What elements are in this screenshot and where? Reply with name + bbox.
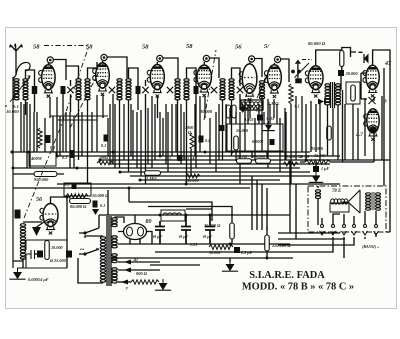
wire V4 plate — [204, 58, 219, 78]
speaker box 78E — [308, 186, 386, 232]
label 400W — [30, 156, 43, 161]
svg-text:0.00054 μF: 0.00054 μF — [28, 277, 49, 282]
IF coil T2a — [117, 79, 122, 100]
wire terminal drops — [155, 233, 376, 258]
wire phones — [342, 48, 363, 58]
label 10.000 b — [284, 154, 295, 159]
label 8uF a — [153, 234, 163, 239]
resistor R plate 80k — [340, 51, 344, 67]
svg-text:250.000: 250.000 — [184, 178, 200, 183]
diode arrow V7 — [318, 99, 325, 105]
svg-text:0.1: 0.1 — [205, 138, 210, 143]
arrow up osc — [295, 60, 301, 79]
svg-text:S.I.A.R.E. FADA: S.I.A.R.E. FADA — [249, 270, 325, 281]
svg-text:0.1: 0.1 — [101, 143, 106, 148]
label a left — [5, 103, 7, 108]
heater resistor 800 — [131, 280, 159, 284]
title line 2 — [242, 282, 354, 293]
AF transformer secondary — [336, 84, 341, 105]
trimmer X3 — [142, 87, 148, 93]
resistor R 250k — [186, 174, 200, 178]
IF coil T2b — [126, 79, 131, 100]
wire right edge vertical 1 — [383, 68, 385, 186]
wire speaker leads — [322, 211, 376, 225]
power transformer secondary — [112, 218, 117, 283]
svg-text:a: a — [5, 103, 7, 108]
antenna coupling hook — [16, 62, 30, 75]
tube V9 47 — [364, 109, 379, 141]
IF coil T1b — [85, 79, 90, 100]
wire T2 tops — [129, 68, 146, 112]
junction dots — [11, 151, 308, 260]
antenna — [9, 44, 23, 76]
tube V7 2A5 — [305, 66, 323, 98]
svg-text:1 μF: 1 μF — [321, 166, 329, 171]
label 0.1 C8 — [100, 203, 105, 208]
svg-text:58: 58 — [142, 44, 149, 51]
oscillator coil L2 — [257, 76, 267, 99]
resistor R osc a — [226, 105, 230, 118]
capacitor C6 0.1 — [104, 135, 109, 142]
label 80.000 n2 — [70, 204, 87, 209]
title line 1 — [249, 270, 325, 281]
resistor R 1800 — [190, 133, 194, 150]
wire heater 3 — [118, 280, 131, 285]
bottom left box — [17, 240, 67, 268]
capacitor C1 — [61, 86, 66, 94]
wire antenna coil tops — [26, 70, 35, 115]
label 0.03 — [267, 116, 275, 121]
resistor R 250k v — [265, 227, 270, 258]
ground bottom left — [9, 268, 25, 279]
svg-text:MODD. « 78 B » « 78 C »: MODD. « 78 B » « 78 C » — [242, 282, 354, 293]
filter cap C14 — [181, 215, 191, 244]
label 500 — [99, 155, 109, 160]
resistor R 1M pill — [145, 171, 161, 176]
gang dash right — [302, 59, 312, 61]
label 950.000 — [34, 177, 49, 182]
tube V6 top cap — [275, 56, 281, 62]
svg-text:(BASSI) «: (BASSI) « — [362, 244, 379, 249]
wire bus h6 — [120, 171, 310, 173]
label 0.1 left — [13, 104, 19, 109]
svg-text:400W: 400W — [30, 156, 43, 161]
tube V1 top cap — [47, 57, 53, 63]
svg-text:950.000: 950.000 — [34, 177, 49, 182]
mains switch — [79, 228, 99, 256]
label bassi — [362, 244, 379, 249]
svg-text:Θ μF: Θ μF — [153, 234, 163, 239]
capacitor C 30000 — [338, 70, 344, 76]
gang dashed line 2 — [204, 50, 216, 120]
wire right edge vertical 2 — [386, 100, 390, 232]
svg-text:30.000: 30.000 — [199, 109, 213, 114]
ground heater — [155, 279, 171, 290]
label 0.1 C5 — [62, 155, 67, 160]
label 30.000 det — [199, 109, 213, 114]
label 78E — [332, 189, 341, 194]
wire 950k leads — [13, 173, 64, 175]
arrow below padder — [239, 104, 247, 113]
trimmer X4 — [167, 87, 173, 93]
IF coil T4b — [229, 79, 234, 100]
gang dash top — [44, 45, 89, 47]
wire V10 top — [51, 197, 68, 268]
IF coil T3b — [184, 79, 189, 100]
wire det drops — [252, 176, 267, 230]
label 80 V11 — [146, 219, 152, 225]
arrow down C8 — [92, 209, 99, 215]
output transformer — [366, 192, 381, 210]
resistor R 10k — [66, 194, 88, 198]
svg-text:80.000 Ω: 80.000 Ω — [70, 204, 87, 209]
capacitor C4 0.1 — [46, 135, 51, 143]
capacitor C 51 grid — [295, 78, 302, 83]
wire V8 plate — [373, 50, 390, 100]
label 51 V6 — [264, 43, 270, 50]
label 95.000 — [311, 146, 324, 151]
label 50.000 det — [236, 128, 249, 133]
label 25.000 bl — [50, 258, 67, 263]
label 250.000 mid — [184, 178, 200, 183]
wire V3 plate — [157, 58, 178, 78]
power transformer primary — [100, 237, 105, 283]
wire left main vertical — [13, 75, 16, 268]
resistor R 25k v — [230, 223, 235, 239]
wire bus h4 — [110, 163, 330, 165]
label 1.25 — [190, 242, 197, 247]
label 58 V4 — [186, 43, 193, 50]
tube V2 58 — [93, 63, 110, 96]
svg-text:4.7: 4.7 — [355, 132, 363, 138]
resistor R 150k — [237, 159, 252, 164]
tube V6 51 — [264, 65, 281, 98]
junction dot 51 — [291, 70, 301, 74]
wire T4 tops — [232, 68, 241, 110]
svg-text:150.1Ω: 150.1Ω — [235, 154, 247, 159]
svg-text:35.000: 35.000 — [313, 153, 326, 158]
IF coil T1a — [76, 79, 81, 100]
speaker cone — [342, 190, 360, 213]
svg-text:/50: /50 — [296, 154, 302, 159]
label 58 V3 — [142, 44, 149, 51]
capacitor C5 0.1 — [70, 150, 75, 158]
wire bus h3 — [100, 159, 390, 161]
wire bus h1 — [13, 151, 310, 153]
capacitor C7 0.1 — [72, 183, 77, 189]
wire V1 plate — [48, 60, 66, 81]
label 35.000 — [313, 153, 326, 158]
slash osc — [295, 63, 310, 78]
label 870.000 — [252, 154, 265, 159]
trimmer X5 — [211, 87, 217, 93]
resistor R 10k b — [283, 162, 298, 166]
capacitor C11 — [37, 251, 43, 258]
oscillator padder box — [241, 100, 263, 110]
label 4.7 V9 — [355, 132, 363, 138]
tube V1 58 — [39, 65, 55, 98]
svg-text:0.1: 0.1 — [64, 182, 69, 187]
gang dashed line 3 — [70, 60, 105, 128]
label 0.1 extra — [205, 138, 210, 143]
svg-text:500Ω: 500Ω — [99, 155, 109, 160]
gang dashed line 1 — [24, 46, 89, 218]
filter cap C15 — [205, 215, 215, 244]
tube V4 58 — [194, 65, 211, 97]
svg-text:0.1: 0.1 — [295, 104, 300, 109]
wire 47 grid bracket — [361, 73, 367, 99]
svg-text:870.000: 870.000 — [252, 154, 265, 159]
wire vertical drops grid — [21, 94, 382, 184]
tube V5 56 — [239, 64, 257, 101]
box 400W — [29, 152, 56, 166]
label 0.0001 det — [252, 139, 264, 144]
capacitor det — [270, 139, 275, 145]
field coil — [330, 199, 349, 212]
wire B+ line — [99, 214, 290, 216]
label 0.00054 — [28, 277, 49, 282]
label 30.000 top — [345, 71, 359, 76]
label 58 V1 — [33, 44, 40, 51]
trimmer X6 — [237, 87, 243, 93]
label 0.5 — [256, 108, 262, 113]
label 1MΩ — [146, 176, 158, 181]
capacitor C16 — [234, 247, 240, 253]
label /50 — [296, 154, 302, 159]
capacitor C9 0.1uF — [178, 155, 183, 161]
label 10.000 bl — [51, 245, 63, 250]
svg-text:0.1 μF: 0.1 μF — [184, 156, 196, 161]
svg-text:95.000: 95.000 — [311, 146, 324, 151]
wire bus h7 — [130, 175, 320, 177]
trimmer X2 — [109, 87, 115, 93]
resistor R out — [305, 160, 330, 164]
wire V2 plate — [103, 57, 128, 78]
resistor R bias box — [346, 82, 360, 104]
trimmer X1 — [67, 87, 73, 93]
filter choke — [161, 210, 185, 221]
capacitor det2 — [220, 125, 225, 131]
label 25.000 n — [203, 223, 221, 228]
label 150.000 — [235, 154, 247, 159]
label 0.5uF — [241, 250, 253, 255]
label 56 V5 — [235, 44, 242, 51]
label 8uF b — [179, 234, 189, 239]
label 0.1uF C9 — [184, 156, 196, 161]
svg-text:47: 47 — [384, 61, 392, 67]
heater tap 2 — [118, 268, 160, 273]
svg-text:10.000 Ω: 10.000 Ω — [92, 193, 109, 198]
svg-text:0.1: 0.1 — [62, 155, 67, 160]
phone jack triangle — [364, 54, 369, 64]
antenna coil arrow — [10, 76, 30, 102]
wire bus h9 — [13, 187, 250, 189]
label 0.1 C7 — [64, 182, 69, 187]
capacitor C mid extra — [199, 136, 204, 143]
detector box — [227, 124, 283, 151]
wire V6 plate — [274, 59, 289, 82]
wire 30000 link — [340, 66, 343, 90]
tube V10 56 — [40, 204, 58, 235]
svg-text:50.000: 50.000 — [236, 128, 249, 133]
label 47 V8 — [384, 61, 392, 67]
wire trimmer X1 — [63, 80, 71, 112]
antenna coil L1 secondary — [23, 79, 28, 100]
resistor R1 400ohm vertical — [38, 128, 42, 148]
wire AVC line 1 — [50, 115, 108, 117]
hum coil — [316, 186, 321, 225]
resistor det vertical — [234, 136, 239, 150]
label y bottom — [125, 285, 129, 290]
capacitor C2 — [136, 86, 141, 94]
tube V2 top cap — [101, 54, 107, 60]
capacitor antenna — [32, 86, 38, 94]
resistor R 870k — [256, 159, 271, 164]
wire V5 plate — [250, 59, 262, 78]
svg-text:0.1: 0.1 — [166, 156, 171, 161]
svg-text:58: 58 — [86, 44, 93, 51]
label 250.000 n b — [271, 243, 291, 248]
wire choke bus — [108, 188, 290, 244]
svg-text:80.000 Ω: 80.000 Ω — [308, 41, 326, 46]
svg-text:58: 58 — [33, 44, 40, 51]
resistor R 950k — [34, 172, 57, 177]
svg-text:Ω 25.000: Ω 25.000 — [50, 258, 67, 263]
svg-text:25.000 Ω: 25.000 Ω — [203, 223, 221, 228]
label 0.1 C6 — [101, 143, 106, 148]
resistor R 80k — [70, 199, 91, 204]
ground arrow V10 — [32, 222, 44, 236]
svg-text:0.003: 0.003 — [244, 117, 253, 122]
capacitor C10 plates — [26, 240, 40, 268]
label 80.000 n — [308, 41, 326, 46]
label 30.000 b — [208, 250, 221, 255]
wire bus h5 — [13, 167, 300, 169]
label 56 V10 — [36, 197, 42, 203]
resistor R bias — [351, 85, 356, 101]
label 10.000 n — [92, 193, 109, 198]
label 0.003 — [244, 117, 253, 122]
cap loop box — [64, 183, 91, 196]
label 8uF c — [203, 234, 213, 239]
IF coil T3a — [175, 79, 180, 100]
capacitor C left edge — [15, 210, 21, 219]
resistor R 30k — [209, 245, 233, 250]
capacitor C8 0.1 — [93, 201, 98, 208]
wire L3 leads — [13, 222, 42, 268]
tube V4 top cap — [203, 55, 209, 61]
svg-text:56: 56 — [235, 44, 242, 51]
resistor R bias v — [45, 241, 50, 260]
capacitor C out — [313, 166, 319, 172]
label 58 V2 — [86, 44, 93, 51]
wire bus h8 — [57, 183, 340, 185]
wire out net — [300, 90, 374, 166]
capacitor C12 — [66, 251, 72, 258]
tube V3 top cap — [157, 55, 163, 61]
tube V8 47 — [363, 65, 379, 97]
capacitor C d1 — [257, 115, 263, 121]
svg-text:10.000: 10.000 — [6, 109, 19, 114]
antenna coil L1 primary — [14, 79, 19, 100]
svg-text:58: 58 — [186, 43, 193, 50]
ground bottom mid — [222, 260, 238, 271]
ground out — [309, 172, 323, 182]
svg-text:10.000: 10.000 — [51, 245, 63, 250]
svg-text:800 Ω: 800 Ω — [136, 271, 148, 276]
x between 47s — [369, 97, 376, 104]
wire V7 plate — [316, 50, 341, 66]
svg-text:78 E: 78 E — [332, 189, 341, 194]
wire bus h2 — [57, 155, 340, 157]
svg-text:1.25: 1.25 — [190, 242, 197, 247]
svg-text:Θ μF: Θ μF — [203, 234, 213, 239]
AF transformer primary — [325, 84, 330, 105]
wire T3 tops — [187, 68, 197, 110]
svg-text:56: 56 — [36, 197, 42, 203]
wire T1 tops — [66, 62, 97, 78]
svg-text:80: 80 — [146, 219, 152, 225]
wire right drops — [278, 162, 345, 239]
label n150 — [300, 154, 310, 159]
label 1 uF — [321, 166, 329, 171]
tube V11 80 rectifier — [118, 215, 152, 244]
resistor R 95k — [327, 126, 332, 140]
heater tap 1 — [118, 258, 160, 265]
tube V5 top cap — [249, 56, 255, 62]
capacitor C3 — [194, 86, 199, 94]
label AC — [80, 245, 85, 254]
AF transformer core — [331, 82, 335, 108]
power transformer core — [107, 216, 111, 286]
oscillator coil L3 — [20, 224, 25, 260]
wire AVC line 2 — [57, 119, 97, 121]
svg-text:0.1: 0.1 — [100, 203, 105, 208]
resistor R 500 — [97, 161, 113, 165]
label 0.1 det — [295, 104, 300, 109]
label 1800 — [185, 125, 194, 135]
label 0.1 C4 — [50, 145, 55, 150]
wire bottom bus — [112, 258, 293, 265]
tube V3 58 — [147, 65, 164, 98]
svg-text:Θ μF: Θ μF — [179, 234, 189, 239]
IF coil T4a — [220, 79, 225, 100]
label 10.000 left — [6, 109, 19, 114]
wire PT leads — [78, 215, 124, 283]
label 1 MΩ. — [268, 101, 280, 106]
label 0.1 mid — [166, 156, 171, 161]
resistor R osc b — [232, 105, 236, 118]
svg-text:10.000: 10.000 — [284, 154, 295, 159]
filter cap C13 — [155, 221, 165, 244]
label 800 n — [136, 271, 148, 276]
svg-text:0.0001: 0.0001 — [252, 139, 264, 144]
svg-text:30.000: 30.000 — [345, 71, 359, 76]
svg-text:1 MΩ.: 1 MΩ. — [146, 176, 158, 181]
wire bus h10 — [140, 179, 280, 181]
ground det — [262, 121, 275, 131]
resistor R grid 1M — [289, 84, 293, 104]
speaker terminals — [320, 225, 379, 236]
label y right — [384, 99, 388, 104]
